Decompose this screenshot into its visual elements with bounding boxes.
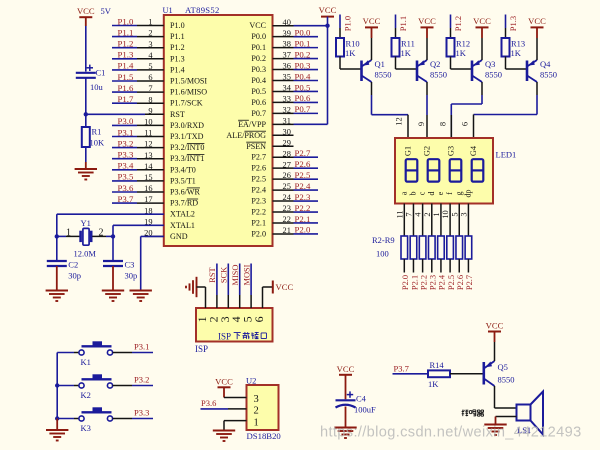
U1 pin 26: [273, 178, 294, 180]
wire ISP pin 4 net MISO: [239, 264, 241, 309]
wire R10 to Q1 base: [340, 57, 361, 70]
U1 pin 22: [273, 222, 294, 224]
wire net P2.3 from U1 pin 24: [294, 200, 319, 202]
svg-text:6: 6: [461, 122, 470, 126]
U1 pin 28: [273, 156, 294, 158]
svg-text:3: 3: [459, 212, 468, 216]
svg-text:ISP: ISP: [195, 344, 208, 354]
resistor R3 100: [410, 236, 417, 259]
U1 pin 16: [137, 191, 164, 193]
svg-text:Q1: Q1: [375, 59, 385, 69]
wire VCC to Q5 emitter: [494, 332, 496, 362]
ground below C2: [46, 291, 68, 302]
U1 pin 32: [273, 112, 294, 114]
svg-text:R14: R14: [430, 360, 445, 370]
svg-text:P0.3: P0.3: [251, 65, 266, 74]
svg-text:P1.2: P1.2: [118, 39, 134, 49]
svg-text:Q2: Q2: [430, 59, 440, 69]
wire net P1.1 to U1 pin 2: [112, 36, 137, 38]
svg-text:Q4: Q4: [540, 59, 551, 69]
svg-text:https://blog.csdn.net/weixin_4: https://blog.csdn.net/weixin_44212493: [320, 425, 582, 441]
junction key bus K2: [55, 383, 59, 387]
svg-text:G1: G1: [403, 146, 412, 156]
svg-text:12.0M: 12.0M: [74, 249, 97, 259]
wire Q5 collector to speaker: [495, 386, 517, 408]
svg-text:AT89S52: AT89S52: [185, 5, 220, 15]
wire R14 to Q5 base: [450, 373, 483, 375]
svg-text:1K: 1K: [428, 379, 439, 389]
wire net P0.4 from U1 pin 35: [294, 80, 319, 82]
wire net P3.6 to U1 pin 16: [112, 191, 137, 193]
svg-text:100: 100: [376, 249, 389, 259]
wire net P3.5 to U1 pin 15: [112, 180, 137, 182]
svg-text:P1.3: P1.3: [508, 16, 518, 31]
svg-text:P2.6: P2.6: [295, 159, 311, 169]
U1 pin 14: [137, 169, 164, 171]
svg-text:c: c: [418, 191, 427, 195]
U1 pin 5: [137, 69, 164, 71]
power VCC at ISP pin 6 (rotated): [273, 281, 294, 294]
wire C2 to ground: [56, 266, 58, 290]
svg-text:P3.7: P3.7: [118, 194, 134, 204]
svg-text:1K: 1K: [456, 48, 467, 58]
power VCC at Q5 emitter: [486, 320, 504, 331]
svg-text:P2.7: P2.7: [295, 148, 311, 158]
svg-text:P2.0: P2.0: [251, 229, 266, 238]
svg-text:8550: 8550: [485, 70, 502, 80]
wire net P3.6 to U2 pin 2: [201, 408, 247, 410]
svg-text:LED1: LED1: [496, 150, 517, 160]
svg-text:P1.2: P1.2: [453, 16, 463, 31]
svg-text:10u: 10u: [90, 82, 104, 92]
svg-text:P1.1: P1.1: [170, 32, 185, 41]
svg-text:P0.2: P0.2: [295, 49, 311, 59]
svg-text:P2.7: P2.7: [465, 275, 474, 290]
wire net P3.1 to U1 pin 11: [112, 136, 137, 138]
U1 pin 20: [145, 235, 164, 237]
resistor R4 100: [419, 236, 426, 259]
U1 pin 7: [137, 91, 164, 93]
svg-text:1: 1: [254, 417, 259, 428]
wire net P3.7 to R14: [393, 373, 429, 375]
wire VCC to C1: [85, 17, 87, 71]
svg-text:P3.6: P3.6: [118, 183, 134, 193]
wire net P2.2 from U1 pin 23: [294, 211, 319, 213]
wire R1 to ground: [85, 147, 87, 169]
wire crystal pin2: [92, 235, 113, 237]
U1 pin 6: [137, 80, 164, 82]
U1 pin 29: [273, 145, 294, 147]
wire net P0.1 from U1 pin 38: [294, 47, 319, 49]
resistor R1 10K: [82, 114, 90, 147]
svg-text:P0.5: P0.5: [251, 87, 266, 96]
svg-text:8550: 8550: [375, 70, 392, 80]
svg-text:U2: U2: [246, 376, 256, 386]
LED1 seven-segment digit 4: [472, 159, 484, 181]
wire net P3.4 to U1 pin 14: [112, 169, 137, 171]
wire ISP pin 2 net RST: [216, 264, 218, 309]
ground below C4: [334, 428, 356, 439]
wire R9 to net P2.7: [467, 259, 469, 273]
svg-text:7: 7: [404, 212, 413, 216]
capacitor C3 30p: [103, 261, 123, 266]
svg-text:P0.5: P0.5: [295, 82, 311, 92]
svg-text:10K: 10K: [90, 138, 106, 148]
svg-text:1: 1: [432, 212, 441, 216]
svg-text:P0.7: P0.7: [251, 109, 266, 118]
svg-text:GND: GND: [170, 232, 188, 241]
svg-text:P1.6/MISO: P1.6/MISO: [170, 88, 207, 97]
svg-text:P1.4: P1.4: [118, 61, 134, 71]
wire LED1 segment f to resistor: [449, 204, 451, 237]
svg-text:DS18B20: DS18B20: [247, 431, 282, 441]
svg-text:VCC: VCC: [418, 16, 436, 26]
svg-text:Y1: Y1: [81, 218, 91, 228]
U1 pin 19: [145, 224, 164, 226]
wire net P2.4 from U1 pin 25: [294, 189, 319, 191]
wire U1 pin 31 EA/VPP to VCC rail: [294, 123, 328, 125]
transistor Q3 8550 PNP: [472, 60, 482, 82]
junction VCC rail / pin 40: [325, 24, 329, 28]
svg-text:2: 2: [423, 212, 432, 216]
svg-text:P2.6: P2.6: [251, 164, 266, 173]
U1 pin 2: [137, 36, 164, 38]
svg-text:P2.0: P2.0: [401, 275, 410, 290]
svg-text:RST: RST: [170, 110, 185, 119]
svg-text:P2.7: P2.7: [251, 153, 266, 162]
wire net P3.2 to U1 pin 12: [112, 147, 137, 149]
svg-text:Q3: Q3: [485, 59, 495, 69]
svg-text:P1.1: P1.1: [118, 27, 134, 37]
U1 pin 17: [137, 202, 164, 204]
svg-text:XTAL1: XTAL1: [170, 221, 195, 230]
svg-text:P0.2: P0.2: [251, 54, 266, 63]
svg-text:K1: K1: [81, 357, 91, 367]
svg-text:VCC: VCC: [77, 6, 95, 16]
svg-text:XTAL2: XTAL2: [170, 210, 195, 219]
wire RST node to U1 pin 9: [86, 113, 145, 115]
svg-text:VCC: VCC: [363, 16, 381, 26]
svg-text:P2.5: P2.5: [447, 275, 456, 290]
power VCC at Q4 emitter: [528, 16, 546, 27]
svg-text:C4: C4: [356, 394, 367, 404]
capacitor C1 10u electrolytic: [76, 65, 96, 78]
wire net P0.0 from U1 pin 39: [294, 36, 319, 38]
U1 pin 31: [273, 123, 294, 125]
LED1 seven-segment digit 2: [428, 159, 440, 181]
wire net P1.0 stub to R10: [339, 15, 341, 39]
svg-text:P2.1: P2.1: [410, 275, 419, 290]
svg-text:8: 8: [439, 122, 448, 126]
svg-text:U1: U1: [163, 6, 173, 15]
svg-text:P1.2: P1.2: [170, 43, 185, 52]
ground at U2 pin 1: [213, 431, 235, 442]
wire VCC to U2 pin 3: [224, 387, 247, 397]
svg-text:P3.5/T1: P3.5/T1: [170, 176, 196, 185]
wire R2 to net P2.0: [403, 259, 405, 273]
U1 pin 40: [273, 25, 294, 27]
wire net P1.0 to U1 pin 1: [112, 25, 137, 27]
svg-text:C1: C1: [96, 68, 106, 78]
svg-text:P3.3/INT1: P3.3/INT1: [170, 154, 204, 163]
U1 pin 8: [137, 102, 164, 104]
wire R4 to net P2.2: [422, 259, 424, 273]
wire net P1.2 to U1 pin 3: [112, 47, 137, 49]
wire C3 to ground: [112, 266, 114, 290]
svg-text:P2.6: P2.6: [456, 275, 465, 290]
svg-text:VCC: VCC: [249, 21, 266, 30]
wire net P1.6 to U1 pin 7: [112, 91, 137, 93]
wire net P1.2 stub to R12: [450, 15, 452, 39]
svg-text:P1.1: P1.1: [398, 16, 408, 31]
junction RST node: [84, 112, 88, 116]
power VCC at U2 pin 3: [215, 376, 233, 387]
wire U1 pin 18 XTAL2 left: [57, 213, 164, 215]
wire net P0.6 from U1 pin 33: [294, 101, 319, 103]
U1 pin 38: [273, 47, 294, 49]
wire crystal pin1: [57, 235, 80, 237]
svg-text:G2: G2: [422, 146, 431, 156]
wire R5 to net P2.3: [431, 259, 433, 273]
svg-text:P1.4: P1.4: [170, 65, 185, 74]
resistor R13 1K: [502, 38, 510, 57]
svg-text:e: e: [436, 191, 445, 195]
U1 pin 15: [137, 180, 164, 182]
wire LED1 segment b to resistor: [412, 204, 414, 237]
wire speaker return to ground: [496, 417, 517, 425]
svg-text:C3: C3: [125, 260, 135, 270]
svg-text:P1.6: P1.6: [118, 83, 134, 93]
wire XTAL1 to U1 pin 19: [113, 224, 164, 226]
switch K2 pushbutton: [74, 374, 132, 388]
svg-text:P2.3: P2.3: [251, 197, 266, 206]
mcu U1 AT89S52 body: [164, 15, 273, 246]
svg-text:d: d: [427, 192, 436, 196]
wire net P2.1 from U1 pin 22: [294, 222, 319, 224]
wire net P0.5 from U1 pin 34: [294, 90, 319, 92]
wire R12 to Q3 base: [451, 57, 472, 70]
U1 pin 36: [273, 69, 294, 71]
power VCC at Q3 emitter: [473, 16, 491, 27]
svg-text:b: b: [408, 192, 417, 196]
svg-text:P0.0: P0.0: [251, 32, 266, 41]
ground below keys: [46, 430, 68, 441]
transistor Q1 8550 PNP: [362, 60, 372, 82]
svg-text:P3.7: P3.7: [394, 363, 409, 373]
wire bus to K1: [57, 352, 74, 354]
svg-text:PSEN: PSEN: [246, 142, 266, 151]
svg-text:P2.2: P2.2: [251, 208, 266, 217]
wire Q3 collector to LED1 pin 8: [451, 82, 482, 138]
wire R6 to net P2.4: [440, 259, 442, 273]
wire net P1.1 stub to R11: [395, 15, 397, 39]
wire U1 pin 40 to VCC rail: [294, 25, 328, 27]
svg-text:2: 2: [254, 406, 259, 417]
wire LED1 segment dp to resistor: [467, 204, 469, 237]
wire LED1 segment d to resistor: [431, 204, 433, 237]
svg-text:P2.4: P2.4: [251, 186, 266, 195]
svg-text:P1.0: P1.0: [118, 16, 134, 26]
svg-text:P1.5: P1.5: [118, 72, 134, 82]
svg-text:a: a: [399, 191, 408, 195]
U1 pin 34: [273, 90, 294, 92]
svg-text:6: 6: [252, 316, 266, 322]
U1 pin 35: [273, 80, 294, 82]
svg-text:8550: 8550: [498, 375, 515, 385]
wire R8 to net P2.6: [458, 259, 460, 273]
wire net P0.3 from U1 pin 36: [294, 69, 319, 71]
power VCC at Q1 emitter: [363, 16, 381, 27]
svg-text:P3.3: P3.3: [134, 407, 149, 417]
svg-text:Q5: Q5: [498, 362, 508, 372]
svg-text:1K: 1K: [401, 48, 412, 58]
U1 pin 9: [145, 113, 164, 115]
wire net P3.0 to U1 pin 10: [112, 124, 137, 126]
svg-text:P2.2: P2.2: [419, 275, 428, 290]
wire VCC to Q4 emitter: [536, 27, 538, 60]
svg-text:R11: R11: [401, 39, 415, 49]
wire net P0.2 from U1 pin 37: [294, 58, 319, 60]
ground below R1: [75, 169, 97, 180]
sensor U2 body: [247, 385, 279, 430]
ground below C3: [102, 291, 124, 302]
wire key bus to ground: [56, 419, 58, 430]
svg-text:P3.4/T0: P3.4/T0: [170, 165, 196, 174]
resistor R2 100: [401, 236, 408, 259]
svg-text:K2: K2: [81, 390, 91, 400]
wire C4 to ground: [345, 407, 347, 428]
wire R3 to net P2.1: [412, 259, 414, 273]
svg-text:5V: 5V: [101, 6, 112, 16]
svg-text:g: g: [454, 192, 463, 196]
svg-text:G4: G4: [469, 145, 478, 156]
switch K1 pushbutton: [74, 341, 132, 355]
wire node2 down to C3: [112, 236, 114, 260]
svg-text:f: f: [445, 192, 454, 195]
svg-text:MOSI: MOSI: [242, 264, 251, 285]
svg-text:R12: R12: [456, 39, 470, 49]
wire net P1.5 to U1 pin 6: [112, 80, 137, 82]
wire Q2 collector to LED1 pin 9: [426, 82, 428, 138]
svg-text:10: 10: [441, 210, 450, 218]
junction crystal node 1 / C2: [55, 234, 59, 238]
svg-text:VCC: VCC: [528, 16, 546, 26]
svg-text:P0.1: P0.1: [251, 43, 266, 52]
resistor R9 100: [465, 236, 472, 259]
svg-text:K3: K3: [81, 423, 91, 433]
wire crystal node2 up to XTAL1: [112, 225, 114, 236]
svg-text:3: 3: [254, 394, 259, 405]
svg-text:RST: RST: [208, 267, 217, 282]
wire VCC to C4: [345, 375, 347, 400]
svg-text:VCC: VCC: [473, 16, 491, 26]
svg-text:SCK: SCK: [220, 267, 229, 283]
wire net P2.5 from U1 pin 26: [294, 178, 319, 180]
svg-text:12: 12: [395, 117, 404, 125]
wire ISP pin 5 net MOSI: [250, 264, 252, 309]
wire ISP pin 1 to ground: [197, 287, 206, 308]
svg-text:P2.4: P2.4: [295, 181, 311, 191]
wire net P3.7 to U1 pin 17: [112, 202, 137, 204]
ground at ISP pin 1: [186, 277, 197, 297]
svg-text:G3: G3: [447, 146, 456, 156]
U1 pin 11: [137, 136, 164, 138]
capacitor C4 100uF electrolytic: [336, 391, 356, 407]
wire net P3.3 to U1 pin 13: [112, 158, 137, 160]
wire Q4 collector to LED1 pin 6: [474, 82, 538, 138]
svg-text:P2.3: P2.3: [295, 192, 311, 202]
svg-text:P1.7/SCK: P1.7/SCK: [170, 99, 203, 108]
wire R13 to Q4 base: [506, 57, 527, 70]
svg-text:P3.0/RXD: P3.0/RXD: [170, 121, 204, 130]
wire C1 to RST node: [85, 78, 87, 115]
U1 pin 12: [137, 147, 164, 149]
wire VCC to Q3 emitter: [481, 27, 483, 60]
svg-text:P3.7/RD: P3.7/RD: [170, 199, 198, 208]
svg-text:P0.1: P0.1: [295, 38, 311, 48]
svg-text:C2: C2: [68, 260, 78, 270]
svg-text:P0.4: P0.4: [251, 76, 266, 85]
svg-text:1K: 1K: [345, 48, 356, 58]
svg-text:P1.5/MOSI: P1.5/MOSI: [170, 77, 207, 86]
wire K1 to net P3.1: [132, 352, 153, 354]
speaker LS1 buzzer: [517, 392, 544, 435]
wire LED1 segment g to resistor: [458, 204, 460, 237]
junction key bus K3: [55, 416, 59, 420]
wire LED1 segment a to resistor: [403, 204, 405, 237]
wire net P1.7 to U1 pin 8: [112, 102, 137, 104]
wire node1 down to C2: [56, 236, 58, 260]
U1 pin 23: [273, 211, 294, 213]
wire U1 pin 20 GND left and down: [141, 236, 164, 290]
resistor R7 100: [447, 236, 454, 259]
svg-text:30p: 30p: [68, 271, 81, 281]
power VCC at Q2 emitter: [418, 16, 436, 27]
capacitor C2 30p: [47, 261, 67, 266]
svg-text:VCC: VCC: [319, 5, 337, 15]
wire net P1.4 to U1 pin 5: [112, 69, 137, 71]
label buzzer chinese text: [462, 410, 484, 417]
U1 pin 18: [145, 213, 164, 215]
U1 pin 10: [137, 124, 164, 126]
transistor Q4 8550 PNP: [527, 60, 537, 82]
crystal Y1 12.0MHz: [81, 228, 92, 245]
svg-text:P3.5: P3.5: [118, 172, 134, 182]
U1 pin 33: [273, 101, 294, 103]
resistor R12 1K: [447, 38, 455, 57]
svg-text:R10: R10: [346, 39, 360, 49]
resistor R11 1K: [392, 38, 400, 57]
svg-text:P2.1: P2.1: [295, 214, 311, 224]
svg-text:VCC: VCC: [276, 282, 294, 292]
wire ISP pin 3 net SCK: [227, 264, 229, 309]
resistor R6 100: [438, 236, 445, 259]
svg-text:ISP: ISP: [218, 331, 231, 341]
svg-text:P3.0: P3.0: [118, 116, 134, 126]
wire VCC rail vertical pin40 to pin31: [327, 17, 329, 125]
svg-text:100uF: 100uF: [354, 405, 376, 415]
wire ISP pin 6 to VCC: [263, 287, 273, 308]
wire XTAL2 down to crystal pin 1: [56, 214, 58, 236]
svg-text:ALE/PROG: ALE/PROG: [226, 131, 266, 140]
wire net P2.6 from U1 pin 27: [294, 167, 319, 169]
svg-text:P3.2: P3.2: [118, 138, 134, 148]
svg-text:P1.0: P1.0: [170, 21, 185, 30]
wire K2 to net P3.2: [132, 385, 153, 387]
wire VCC to Q2 emitter: [426, 27, 428, 60]
svg-text:P3.2/INT0: P3.2/INT0: [170, 143, 204, 152]
wire U2 pin 1 to ground: [224, 421, 247, 430]
